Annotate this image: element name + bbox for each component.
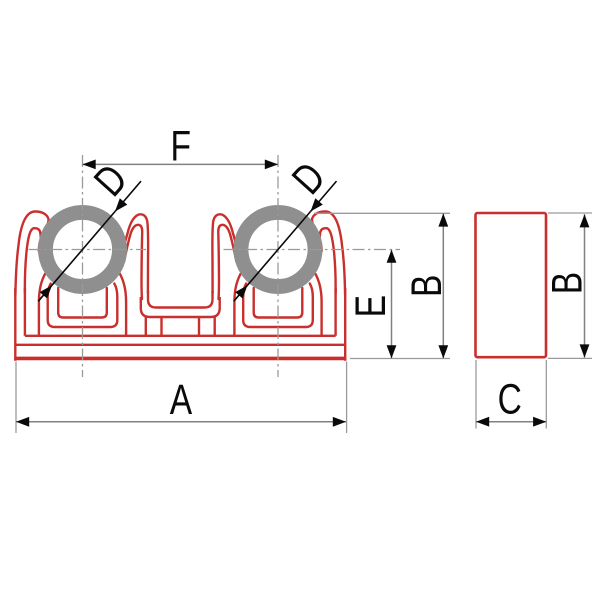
- dimension E arrow top: [387, 250, 397, 263]
- extension line A right: [346, 362, 348, 434]
- base bottom edge: [14, 358, 346, 360]
- extension line B-side top: [548, 212, 592, 214]
- extension line bottom (E and B): [350, 358, 450, 360]
- dimension C arrow right: [533, 417, 546, 427]
- dimension F arrow left: [83, 160, 96, 170]
- dimension B-side arrow bottom: [580, 344, 590, 357]
- dimension B-side line: [584, 214, 586, 357]
- dimension C arrow left: [476, 417, 489, 427]
- dimension B-front arrow bottom: [438, 345, 448, 358]
- dimension F line: [83, 163, 279, 165]
- dimension A arrow left: [16, 417, 29, 427]
- dimension A arrow right: [333, 417, 346, 427]
- D2 leader upper-right: [311, 181, 337, 211]
- D1 tail lower-left: [38, 285, 52, 301]
- dimension B-front arrow top: [438, 213, 448, 226]
- svg-text:C: C: [498, 376, 522, 424]
- D2 arrow lower-left: [235, 285, 247, 298]
- clip inner wall left: [24, 288, 26, 336]
- clip outer wall left: [14, 288, 16, 361]
- pipe cradle under cup 2: [234, 273, 321, 336]
- clip finger inner-right (cup 2, tower side): [212, 214, 241, 299]
- dimension F arrow right: [265, 160, 278, 170]
- centerline circle 1 vertical: [82, 155, 84, 377]
- pipe cradle under cup 1: [39, 273, 126, 336]
- dimension A line: [16, 421, 346, 423]
- clip inner wall right: [334, 288, 336, 336]
- clip finger outer-left (cup 1): [15, 211, 48, 295]
- base top line: [25, 335, 336, 337]
- centerline circle 2 horizontal / E extension: [224, 249, 401, 251]
- tower support legs: [146, 317, 215, 336]
- clip finger inner-left (cup 1, tower side): [120, 214, 149, 299]
- D1 leader upper-right: [115, 181, 141, 211]
- dimension C line: [476, 421, 546, 423]
- D2 tail lower-left: [234, 285, 248, 301]
- D1 arrow upper-right: [115, 198, 127, 211]
- clip outer wall right: [344, 288, 346, 361]
- svg-text:E: E: [347, 295, 395, 317]
- dimension B-front line: [442, 213, 444, 358]
- extension line B-side bottom: [548, 357, 592, 359]
- extension line C left: [475, 360, 477, 429]
- centerline circle 1 horizontal: [29, 249, 146, 251]
- svg-text:B: B: [403, 275, 451, 297]
- side view outline: [476, 213, 547, 357]
- dimension E line: [391, 250, 393, 359]
- base lower line: [16, 357, 344, 359]
- svg-text:F: F: [171, 123, 192, 171]
- extension line B-front top: [314, 212, 450, 214]
- diameter line D circle 2: [248, 212, 311, 286]
- D1 arrow lower-left: [40, 285, 52, 298]
- svg-text:B: B: [544, 272, 592, 294]
- base mid line: [15, 344, 345, 346]
- pipe cross-section ring 2: [241, 212, 315, 286]
- D2 arrow upper-right: [311, 198, 323, 211]
- centerline circle 2 vertical: [277, 155, 279, 377]
- middle tower U-channel: [141, 291, 220, 317]
- svg-text:A: A: [170, 376, 193, 424]
- pipe cross-section ring 1: [45, 212, 119, 286]
- extension line C right: [545, 360, 547, 429]
- dimension E arrow bottom: [387, 345, 397, 358]
- diameter line D circle 1: [52, 212, 115, 286]
- extension line A left: [15, 362, 17, 434]
- dimension B-side arrow top: [580, 214, 590, 227]
- clip finger outer-right (cup 2): [312, 211, 345, 295]
